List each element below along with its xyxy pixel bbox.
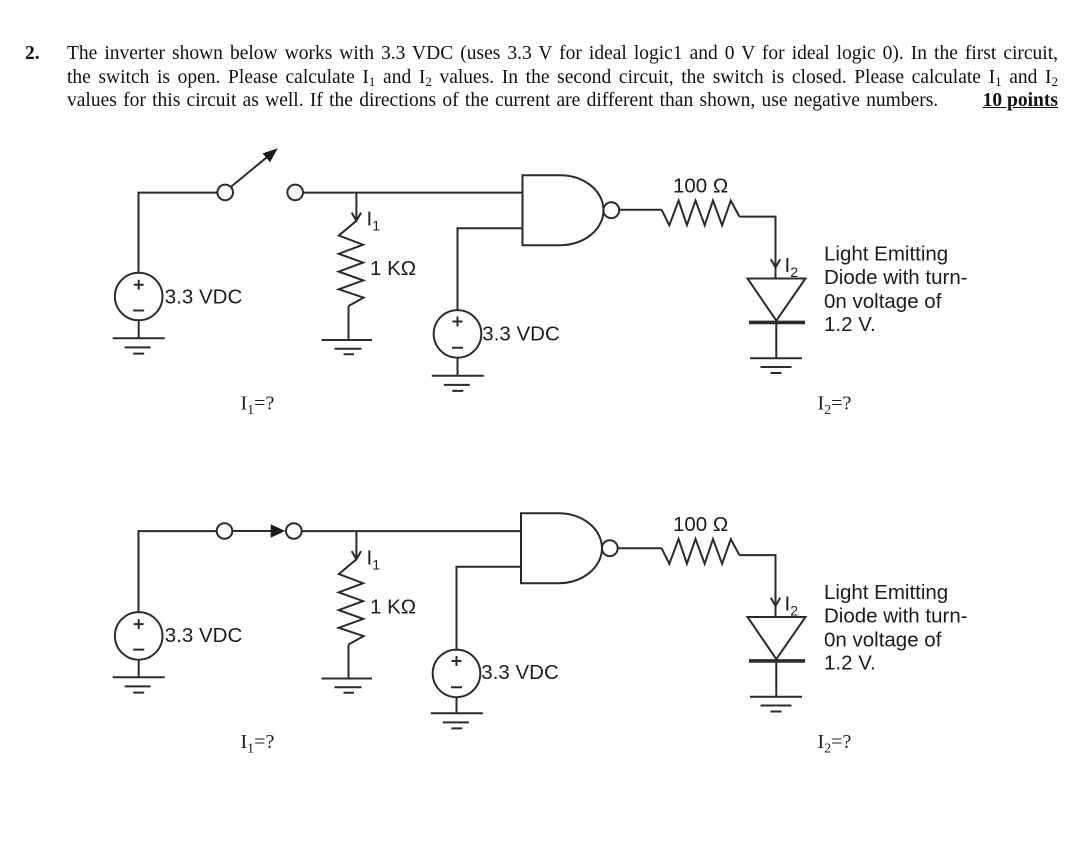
resistor R2 100 Ω bbox=[662, 201, 740, 226]
svg-text:Diode with turn-: Diode with turn- bbox=[824, 605, 968, 628]
wire D1 to ground bbox=[775, 322, 777, 358]
svg-text:I2=?: I2=? bbox=[818, 731, 852, 757]
wire gate U1 output to R2 bbox=[619, 209, 661, 211]
svg-text:1.2 V.: 1.2 V. bbox=[824, 313, 876, 336]
switch S1 throw circle bbox=[287, 185, 303, 201]
note: LED description (circuit 2) bbox=[824, 581, 968, 675]
resistor R4 100 Ω bbox=[662, 539, 740, 564]
question number bbox=[25, 42, 40, 66]
switch S2 throw circle bbox=[286, 523, 302, 539]
switch S1 blade arrowhead bbox=[263, 148, 278, 162]
svg-text:Light Emitting: Light Emitting bbox=[824, 581, 948, 604]
ground (R3) bbox=[322, 679, 373, 693]
LED D2 triangle bbox=[748, 617, 806, 659]
svg-text:3.3 VDC: 3.3 VDC bbox=[481, 661, 559, 684]
svg-text:3.3 VDC: 3.3 VDC bbox=[165, 286, 243, 309]
svg-text:3.3 VDC: 3.3 VDC bbox=[165, 624, 243, 647]
svg-text:1 KΩ: 1 KΩ bbox=[370, 596, 416, 619]
wire R4 to LED D2 bbox=[739, 555, 775, 617]
svg-text:I1: I1 bbox=[367, 547, 381, 573]
note: LED description (circuit 1) bbox=[824, 243, 968, 337]
nand gate U1 output bubble bbox=[603, 202, 619, 218]
switch S1 pole circle bbox=[217, 185, 233, 201]
nand gate U2 output bubble bbox=[602, 540, 618, 556]
ground (V2) bbox=[432, 358, 484, 391]
svg-text:I2: I2 bbox=[785, 254, 799, 280]
current arrow I2 (circuit 1) bbox=[771, 259, 780, 267]
voltage source V2 bbox=[434, 310, 482, 358]
wire V4 to gate U2 input B bbox=[457, 567, 522, 651]
svg-text:I2: I2 bbox=[785, 593, 799, 619]
ground (V4) bbox=[431, 697, 483, 728]
resistor R3 1 KΩ bbox=[339, 559, 364, 644]
LED D1 cathode bar bbox=[749, 321, 805, 325]
svg-text:I1=?: I1=? bbox=[241, 393, 275, 419]
resistor R1 1 KΩ bbox=[339, 221, 364, 306]
svg-text:Diode with turn-: Diode with turn- bbox=[824, 266, 968, 289]
svg-text:Light Emitting: Light Emitting bbox=[824, 243, 948, 266]
wire R1 to ground bbox=[348, 306, 350, 340]
ground (R1) bbox=[322, 340, 373, 354]
svg-text:I1=?: I1=? bbox=[241, 731, 275, 757]
question text paragraph bbox=[67, 42, 1058, 113]
LED D2 cathode bar bbox=[749, 659, 805, 663]
wire switch S2 to gate U2 input A bbox=[302, 530, 521, 532]
switch S1 open blade bbox=[231, 155, 270, 187]
wire V3 top to switch S2 bbox=[139, 531, 217, 612]
svg-text:1.2 V.: 1.2 V. bbox=[824, 652, 876, 675]
wire gate U2 output to R4 bbox=[618, 547, 662, 549]
nand gate U2 body bbox=[521, 513, 602, 583]
svg-text:100 Ω: 100 Ω bbox=[673, 175, 728, 198]
nand gate U1 body bbox=[523, 175, 604, 245]
wire R2 to LED D1 bbox=[739, 217, 775, 279]
ground (V1) bbox=[113, 320, 165, 353]
voltage source V1 bbox=[115, 273, 163, 321]
ground (D2) bbox=[750, 697, 802, 712]
switch S2 blade arrowhead bbox=[271, 524, 286, 538]
wire V2 to gate U1 input B bbox=[458, 228, 523, 310]
svg-text:0n voltage of: 0n voltage of bbox=[824, 290, 942, 313]
wire switch S1 to gate U1 input A bbox=[303, 192, 523, 194]
svg-text:1 KΩ: 1 KΩ bbox=[370, 257, 416, 280]
ground (D1) bbox=[750, 358, 802, 373]
current arrow I2 (circuit 2) bbox=[771, 598, 780, 606]
ground (V3) bbox=[113, 660, 165, 693]
svg-text:100 Ω: 100 Ω bbox=[673, 513, 728, 536]
svg-text:0n voltage of: 0n voltage of bbox=[824, 629, 942, 652]
voltage source V3 bbox=[115, 612, 163, 660]
svg-text:I1: I1 bbox=[367, 207, 381, 233]
svg-text:I2=?: I2=? bbox=[818, 392, 852, 418]
svg-text:3.3 VDC: 3.3 VDC bbox=[482, 323, 560, 346]
wire D2 to ground bbox=[775, 661, 777, 697]
current arrow I1 (circuit 1) bbox=[352, 193, 361, 221]
wire R3 to ground bbox=[348, 645, 350, 679]
switch S2 closed blade bbox=[232, 530, 271, 532]
voltage source V4 bbox=[433, 650, 481, 698]
wire V1 top to switch S1 bbox=[139, 193, 218, 274]
switch S2 pole circle bbox=[217, 523, 233, 539]
current arrow I1 (circuit 2) bbox=[352, 531, 361, 559]
LED D1 triangle bbox=[748, 279, 806, 321]
